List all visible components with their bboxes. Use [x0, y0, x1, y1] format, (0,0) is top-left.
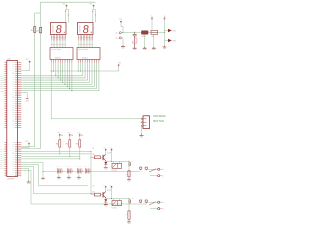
svg-text:S3: S3: [162, 202, 164, 204]
svg-text:PC0: PC0: [12, 166, 15, 168]
junction R13: [79, 158, 80, 159]
svg-text:R13: R13: [76, 144, 79, 146]
connector X1 pin1: [119, 32, 121, 34]
connector LCD1 pins: [5, 62, 7, 64]
svg-text:S1: S1: [162, 169, 164, 171]
svg-text:PC0: PC0: [12, 125, 15, 127]
connector SV1 box: [143, 116, 150, 129]
supply VCC arrow D2: [93, 5, 95, 7]
svg-text:PC0: PC0: [12, 114, 15, 116]
ground VDD: [163, 46, 167, 47]
wire key rail 2: [21, 153, 91, 155]
svg-text:K2 G5V1: K2 G5V1: [112, 207, 118, 209]
svg-text:HD-H101: HD-H101: [55, 57, 61, 59]
display LED2 graphic: [78, 23, 94, 35]
ground C11: [152, 47, 156, 48]
svg-text:PC0: PC0: [12, 92, 15, 94]
svg-text:PC0: PC0: [12, 71, 15, 73]
wire aux flag: [21, 93, 27, 99]
svg-text:PC0: PC0: [12, 75, 15, 77]
junction X1a: [123, 32, 124, 33]
svg-text:PC0: PC0: [12, 155, 15, 157]
pin cross marks D2: [92, 12, 96, 16]
svg-text:SEG.E: SEG.E: [0, 84, 4, 86]
svg-text:OUT2: OUT2: [0, 166, 4, 168]
svg-text:PC0: PC0: [12, 81, 15, 83]
svg-text:PC0: PC0: [12, 119, 15, 121]
svg-text:GND: GND: [104, 206, 107, 208]
ground D10: [143, 47, 147, 48]
gnd flag aux: [26, 98, 29, 100]
flag VDD: [168, 29, 172, 32]
svg-text:GND: GND: [27, 183, 30, 185]
svg-text:KEY.3: KEY.3: [0, 156, 4, 158]
svg-text:4k7: 4k7: [37, 30, 39, 32]
junction reg: [152, 32, 153, 33]
svg-text:GND: GND: [133, 49, 136, 51]
svg-text:X1-1: X1-1: [116, 33, 119, 35]
wire D10 gnd: [144, 34, 146, 47]
svg-text:R2: R2: [93, 185, 95, 187]
wire key rail 4: [21, 158, 80, 160]
svg-text:PC0: PC0: [12, 175, 15, 177]
display2 symbol box: [77, 48, 100, 60]
junction R11: [59, 153, 60, 154]
wire jog: [35, 12, 41, 14]
junction SV1 wire: [51, 71, 52, 72]
wire X1 vcc stem: [121, 23, 123, 33]
svg-text:PC0: PC0: [12, 116, 15, 118]
supply VCC arrow conn: [29, 61, 31, 63]
svg-text:FAN MAIN: FAN MAIN: [153, 114, 165, 118]
display1 symbol box: [50, 48, 73, 60]
wire to SV1: [51, 71, 142, 119]
svg-text:PC0: PC0: [12, 79, 15, 81]
svg-text:PC0: PC0: [12, 172, 15, 174]
wire W4 gnd stub: [21, 169, 28, 182]
segment bus rails: [21, 75, 83, 77]
svg-text:PC0: PC0: [12, 68, 15, 70]
connector X1 pin2: [119, 37, 121, 39]
svg-text:GND: GND: [121, 47, 124, 49]
svg-text:1N4004: 1N4004: [141, 36, 146, 38]
wire C11 gnd: [153, 35, 155, 48]
wire input vertical: [91, 151, 94, 193]
svg-text:PC0: PC0: [12, 93, 15, 95]
svg-text:PC0: PC0: [12, 103, 15, 105]
svg-text:VCC: VCC: [103, 185, 106, 187]
svg-text:GND: GND: [67, 179, 70, 181]
svg-text:GND: GND: [104, 168, 107, 170]
svg-text:OUT1: OUT1: [0, 164, 4, 166]
svg-text:R1: R1: [93, 148, 95, 150]
connector LCD1 box: [7, 61, 18, 177]
svg-text:VCC: VCC: [103, 147, 106, 149]
svg-text:PC0: PC0: [12, 105, 15, 107]
svg-text:VCC: VCC: [119, 19, 122, 21]
resistor R15: [34, 27, 36, 33]
wire VCC to display2 pins: [93, 7, 96, 22]
junction dots common: [53, 71, 54, 72]
svg-text:GND: GND: [152, 49, 155, 51]
svg-text:PC0: PC0: [12, 99, 15, 101]
svg-text:PC0: PC0: [12, 123, 15, 125]
switch K2 contacts: [140, 200, 142, 202]
svg-text:BC337: BC337: [107, 153, 111, 155]
supply VCC arrow X1: [120, 21, 122, 23]
svg-text:VCC: VCC: [25, 141, 28, 143]
junction C10: [134, 32, 135, 33]
svg-text:PC0: PC0: [12, 144, 15, 146]
svg-text:PC0: PC0: [12, 127, 15, 129]
svg-text:PC0: PC0: [12, 108, 15, 110]
svg-text:BAT TAD: BAT TAD: [153, 119, 164, 123]
wire VDD branch: [165, 20, 169, 46]
svg-text:100u: 100u: [133, 40, 135, 44]
svg-text:PC0: PC0: [12, 82, 15, 84]
svg-text:OUT0: OUT0: [0, 162, 4, 164]
connector SV1 pins: [141, 118, 143, 120]
svg-text:PC0: PC0: [12, 164, 15, 166]
svg-text:PC0: PC0: [12, 168, 15, 170]
pin cross marks D1: [65, 12, 69, 16]
supply VCC arrow D1: [66, 5, 68, 7]
svg-text:GND: GND: [143, 49, 146, 51]
switch K1 contacts: [140, 167, 142, 169]
svg-text:VCC: VCC: [26, 59, 29, 61]
svg-text:KEY.5: KEY.5: [0, 160, 4, 162]
svg-text:PC0: PC0: [12, 159, 15, 161]
svg-text:PC0: PC0: [12, 73, 15, 75]
svg-text:PC0: PC0: [12, 173, 15, 175]
svg-text:PC0: PC0: [12, 146, 15, 148]
svg-text:SEG.G: SEG.G: [0, 88, 4, 90]
connector LCD1 pin marks: [15, 62, 17, 64]
wire d2 commons: [78, 63, 80, 72]
svg-text:BC337: BC337: [107, 190, 111, 192]
wire W2: [21, 165, 88, 186]
svg-text:PC0: PC0: [12, 66, 15, 68]
svg-text:BC: BC: [132, 160, 134, 162]
svg-text:GND: GND: [26, 100, 29, 102]
wire common line: [51, 63, 119, 72]
svg-text:OUT3: OUT3: [0, 168, 4, 170]
svg-text:PC0: PC0: [12, 88, 15, 90]
ground X1: [121, 45, 125, 46]
display LED1 graphic: [51, 23, 67, 35]
svg-text:GND: GND: [42, 179, 45, 181]
svg-text:KEY.2: KEY.2: [0, 153, 4, 155]
wire conn vcc: [21, 63, 29, 70]
svg-text:PC0: PC0: [12, 118, 15, 120]
supply VCC arrow conn2: [28, 143, 30, 145]
supply VCC arrow common: [118, 64, 120, 66]
svg-text:10k: 10k: [61, 135, 63, 137]
wire resistor drop left: [34, 13, 36, 147]
svg-text:KEY.4: KEY.4: [0, 158, 4, 160]
svg-text:PC0: PC0: [12, 142, 15, 144]
wire VCC to display1 pins: [66, 7, 69, 22]
resistor R16: [40, 27, 42, 33]
capacitor C10: [133, 32, 137, 47]
ground W4: [27, 181, 31, 182]
svg-text:PC0: PC0: [12, 170, 15, 172]
flag VSS: [168, 39, 172, 42]
svg-text:GND: GND: [57, 179, 60, 181]
diode D10: [142, 31, 149, 34]
svg-text:R12: R12: [66, 144, 69, 146]
svg-text:X1-2: X1-2: [116, 38, 119, 40]
svg-text:10k: 10k: [71, 135, 73, 137]
svg-text:PC0: PC0: [12, 112, 15, 114]
supply VCC arrow reg: [151, 18, 153, 20]
svg-text:BC: BC: [132, 198, 134, 200]
svg-text:PC0: PC0: [12, 121, 15, 123]
junction VDD: [164, 32, 165, 33]
svg-text:PC0: PC0: [12, 148, 15, 150]
svg-text:S2: S2: [162, 176, 164, 178]
display1 bottom pins: [50, 60, 52, 63]
ground C10: [133, 47, 137, 48]
junction W1: [43, 171, 44, 172]
svg-text:LCD1: LCD1: [7, 59, 11, 61]
wire SV1 gnd: [141, 126, 144, 135]
svg-text:KEY.0: KEY.0: [0, 149, 4, 151]
svg-text:SEG.C: SEG.C: [0, 80, 4, 82]
wire SV1 pin2 stub: [140, 121, 142, 123]
svg-text:PC0: PC0: [12, 153, 15, 155]
svg-text:SEG.B: SEG.B: [0, 78, 4, 80]
svg-text:PC0: PC0: [12, 90, 15, 92]
svg-text:PC0: PC0: [12, 86, 15, 88]
wire resistor drop right: [40, 2, 42, 148]
svg-text:PC0: PC0: [12, 151, 15, 153]
svg-text:PC0: PC0: [12, 77, 15, 79]
display2 pins: [78, 35, 80, 41]
svg-text:SEG.F: SEG.F: [0, 86, 4, 88]
ground SV1: [140, 134, 144, 135]
wire key rail 1: [21, 150, 91, 152]
supply VCC arrow vdd: [164, 18, 166, 20]
svg-text:K1 G5V1: K1 G5V1: [112, 170, 118, 172]
svg-text:PC0: PC0: [12, 62, 15, 64]
svg-text:PC0: PC0: [12, 95, 15, 97]
svg-text:HD-H101: HD-H101: [82, 57, 88, 59]
wire drop end left: [21, 146, 34, 148]
svg-text:PC0: PC0: [12, 162, 15, 164]
display2 bottom pins: [77, 60, 79, 63]
svg-text:PC0: PC0: [12, 64, 15, 66]
svg-text:VCC: VCC: [118, 62, 121, 64]
svg-text:GND: GND: [163, 48, 166, 50]
svg-text:R11: R11: [56, 144, 59, 146]
wire drop end right: [21, 148, 40, 150]
wire X1: [121, 32, 164, 45]
svg-text:GND: GND: [140, 136, 143, 138]
svg-text:a b c d e f g dp cc: a b c d e f g dp cc: [78, 49, 89, 51]
svg-text:PC0: PC0: [12, 84, 15, 86]
ground W1: [41, 177, 45, 178]
svg-text:SEG.P: SEG.P: [0, 90, 4, 92]
svg-text:PC0: PC0: [12, 97, 15, 99]
svg-text:GND: GND: [77, 179, 80, 181]
wire W1 gnd stub: [42, 171, 44, 177]
junction R12: [69, 156, 70, 157]
svg-text:PC0: PC0: [12, 69, 15, 71]
svg-text:a b c d e f g dp cc: a b c d e f g dp cc: [51, 49, 62, 51]
svg-text:4k7: 4k7: [31, 30, 33, 32]
svg-text:GND: GND: [127, 223, 130, 224]
svg-text:PC0: PC0: [12, 110, 15, 112]
wire key rail 3: [21, 155, 80, 157]
svg-text:GND: GND: [127, 181, 130, 183]
display1 pins: [51, 35, 53, 41]
wire reg vcc: [151, 20, 153, 31]
wire W1 to switch K1: [21, 163, 139, 172]
svg-text:10k: 10k: [81, 135, 83, 137]
svg-text:PC0: PC0: [12, 149, 15, 151]
wire VCC top rail: [41, 1, 96, 3]
svg-text:PC0: PC0: [12, 106, 15, 108]
wire conn2 vcc: [21, 145, 29, 148]
svg-text:PC0: PC0: [12, 101, 15, 103]
wire W3 to driver B: [21, 167, 94, 194]
svg-text:PC0: PC0: [12, 157, 15, 159]
svg-text:SEG.D: SEG.D: [0, 82, 4, 84]
svg-text:KEY.1: KEY.1: [0, 151, 4, 153]
svg-text:PC0: PC0: [12, 161, 15, 163]
wire W5 to switch K2: [21, 171, 146, 205]
capacitor C11: [151, 30, 158, 34]
junction input A: [91, 151, 92, 152]
svg-text:S4: S4: [162, 208, 164, 210]
